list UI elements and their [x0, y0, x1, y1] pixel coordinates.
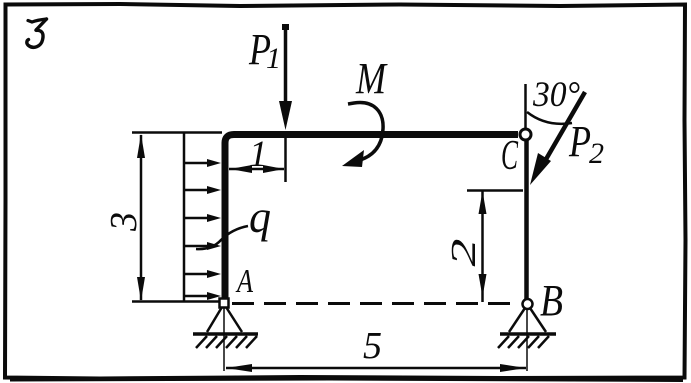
support B: hatching	[498, 336, 549, 348]
dimension 3: bottom extension line	[132, 300, 220, 303]
svg-text:B: B	[540, 276, 563, 325]
support B: ground line	[500, 332, 556, 336]
support A: ground line	[193, 332, 258, 336]
dimension 3: vertical dimension line with arrows	[137, 134, 145, 301]
svg-text:A: A	[235, 263, 253, 300]
frame: right column	[524, 140, 529, 300]
figure number 3	[27, 19, 47, 47]
svg-text:q: q	[249, 191, 271, 242]
svg-text:30°: 30°	[532, 74, 580, 114]
angle arc 30 degrees	[527, 112, 572, 124]
dimension 1: extension line below P1	[284, 138, 287, 182]
centerline below B	[526, 309, 528, 371]
svg-text:1: 1	[249, 134, 268, 175]
label P1	[248, 25, 281, 75]
support B: pin circle	[523, 299, 533, 309]
dimension 3: top extension line	[132, 131, 222, 134]
dimension 2: vertical dimension line with arrows	[479, 191, 487, 302]
svg-text:2: 2	[589, 137, 604, 170]
vertical reference line above C	[524, 84, 527, 128]
svg-text:C: C	[501, 133, 519, 179]
dimension 5: dimension line with arrows	[226, 364, 526, 372]
support B: triangle legs	[509, 308, 546, 332]
force P1 arrow	[279, 24, 292, 130]
support A: triangle legs	[207, 307, 242, 332]
svg-text:2: 2	[444, 239, 483, 267]
moment M arc arrow	[342, 103, 383, 167]
svg-text:5: 5	[363, 325, 382, 367]
distributed load q: rung arrows	[184, 159, 221, 300]
force P2 arrow (inclined 30 deg)	[530, 92, 585, 185]
centerline below A	[223, 308, 225, 371]
label P2	[568, 117, 604, 170]
svg-text:P: P	[568, 117, 591, 166]
dimension 2: extension line	[467, 189, 523, 192]
frame: top beam with rounded left corner and left column	[225, 135, 518, 304]
svg-text:1: 1	[266, 42, 281, 75]
svg-text:M: M	[355, 54, 388, 103]
pin C (hinge circle at top right corner)	[520, 129, 531, 140]
leader line from q to load	[196, 226, 248, 249]
support A: pin square	[220, 299, 229, 308]
support A: hatching	[196, 336, 257, 348]
distributed load q: left boundary line	[183, 133, 186, 302]
svg-text:3: 3	[103, 212, 145, 232]
dimension 1: dimension line with arrows	[229, 165, 284, 173]
dashed line from A to B	[232, 302, 518, 305]
